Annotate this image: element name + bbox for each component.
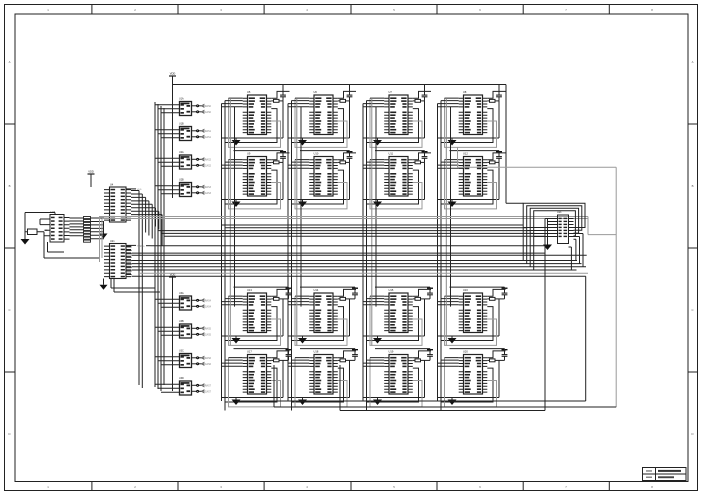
wire U23 nested loops	[523, 203, 585, 260]
svg-text:U9: U9	[247, 151, 251, 155]
svg-text:A: A	[9, 60, 11, 64]
wire RP to U4	[91, 218, 105, 239]
wire U22 left pins	[40, 219, 64, 252]
RAM U19	[363, 349, 433, 407]
wire small IC input taps	[155, 105, 173, 393]
svg-text:U13: U13	[247, 288, 252, 292]
RAM U18	[288, 349, 358, 407]
svg-text:U17: U17	[247, 349, 252, 353]
wire bottom long black 1	[237, 276, 586, 401]
svg-text:CAS4: CAS4	[205, 305, 212, 308]
decoder U22	[45, 211, 70, 242]
wire rail corner drop to loop	[506, 85, 523, 204]
RAM U12	[438, 151, 506, 209]
RAM U13	[222, 287, 292, 345]
svg-text:RAS3: RAS3	[205, 186, 212, 189]
RAM U6	[288, 85, 356, 148]
RAM U7	[363, 85, 431, 148]
svg-text:VDD: VDD	[140, 246, 145, 248]
wire left stub	[25, 213, 55, 240]
inverter U2A	[173, 151, 212, 169]
wire U23 bottom loops	[569, 234, 584, 271]
title block	[643, 468, 687, 481]
svg-text:U1B: U1B	[179, 122, 184, 125]
svg-text:U14: U14	[314, 288, 319, 292]
wire U4 outputs fan	[131, 191, 162, 389]
svg-text:D: D	[691, 432, 693, 436]
svg-text:CAS2: CAS2	[205, 164, 212, 167]
svg-text:U2A: U2A	[179, 151, 184, 154]
ground U4	[103, 222, 105, 234]
RAM U17	[222, 349, 292, 407]
svg-text:U7: U7	[389, 90, 393, 94]
power tag VDD U4	[126, 188, 136, 190]
inverter U2B	[173, 178, 212, 196]
ground U21	[103, 279, 105, 285]
wire bottom long black 3	[274, 365, 616, 407]
wire VDD stem small IC column top	[172, 85, 174, 199]
svg-text:U3C: U3C	[179, 349, 184, 352]
inverter U1A	[173, 97, 212, 115]
svg-text:U20: U20	[463, 349, 468, 353]
wire U21 output buses stubs	[126, 247, 132, 275]
ground R1	[21, 239, 30, 245]
svg-text:A: A	[692, 60, 694, 64]
wire below U21	[111, 279, 160, 293]
wire column verticals	[222, 101, 451, 411]
svg-text:C: C	[8, 308, 10, 312]
svg-text:U16: U16	[463, 288, 468, 292]
svg-text:U21: U21	[110, 240, 115, 243]
bus top band to right IC	[158, 225, 545, 236]
wire gray pair long	[100, 217, 589, 219]
wire long vertical x545	[544, 219, 546, 411]
buffer U4	[104, 183, 131, 222]
svg-text:RAS2: RAS2	[205, 158, 212, 161]
inverter U1B	[173, 122, 212, 140]
RAM U15	[363, 287, 433, 345]
svg-text:U15: U15	[389, 288, 394, 292]
svg-text:CAS1: CAS1	[205, 136, 212, 139]
svg-text:U23: U23	[557, 211, 562, 214]
svg-text:CAS5: CAS5	[205, 333, 212, 336]
svg-text:D: D	[8, 432, 10, 436]
svg-text:CAS6: CAS6	[205, 363, 212, 366]
svg-text:C: C	[691, 308, 693, 312]
ground U23	[543, 245, 552, 251]
RAM U11	[363, 151, 431, 209]
inverter U3D	[173, 377, 212, 395]
svg-text:RAS6: RAS6	[205, 357, 212, 360]
bus lines middle band	[132, 246, 587, 277]
svg-text:RAS7: RAS7	[205, 384, 212, 387]
svg-text:U3A: U3A	[179, 292, 184, 295]
inverter U3A	[173, 292, 212, 310]
svg-text:VDD: VDD	[170, 72, 176, 76]
svg-text:U1A: U1A	[179, 97, 184, 100]
power tag VDD U21	[126, 244, 136, 246]
svg-text:U12: U12	[463, 151, 468, 155]
svg-text:B: B	[692, 184, 694, 188]
svg-text:U5: U5	[247, 90, 251, 94]
svg-text:CAS3: CAS3	[205, 192, 212, 195]
RAM U9	[222, 151, 290, 209]
svg-text:U11: U11	[389, 151, 394, 155]
RAM U5	[222, 85, 290, 148]
resistor R1	[28, 229, 38, 235]
svg-text:U10: U10	[314, 151, 319, 155]
wire VDD rail horizontal	[173, 84, 507, 86]
wire U22 to RP	[70, 218, 84, 236]
svg-text:RAS5: RAS5	[205, 327, 212, 330]
bus gray line	[140, 272, 588, 274]
border zone ticks sides	[5, 124, 698, 372]
power tag bus VDD	[146, 245, 151, 247]
wire R1 leads	[25, 232, 100, 258]
svg-text:U6: U6	[314, 90, 318, 94]
wire bottom long black 2	[340, 365, 545, 411]
svg-text:U2B: U2B	[179, 178, 184, 181]
svg-text:CAS0: CAS0	[205, 111, 212, 114]
svg-text:U3D: U3D	[179, 377, 184, 380]
buffer U21	[104, 240, 131, 279]
wire gray right box	[458, 147, 617, 407]
RAM U16	[438, 287, 508, 345]
svg-text:RAS4: RAS4	[205, 299, 212, 302]
svg-text:B: B	[9, 184, 11, 188]
resistor pack RP1	[84, 217, 91, 243]
svg-text:RAS1: RAS1	[205, 130, 212, 133]
svg-text:U19: U19	[389, 349, 394, 353]
svg-text:RAS0: RAS0	[205, 105, 212, 108]
inverter U3C	[173, 349, 212, 367]
svg-text:U3B: U3B	[179, 320, 184, 323]
wire input bundle verticals	[155, 102, 164, 391]
RAM U8	[438, 85, 506, 148]
svg-text:VDD: VDD	[88, 170, 94, 174]
RAM U14	[288, 287, 358, 345]
border zone ticks bottom	[92, 482, 609, 491]
svg-text:CAS7: CAS7	[205, 390, 212, 393]
wire U23 left pin column	[545, 219, 553, 245]
wire gray vertical left	[100, 216, 103, 262]
RAM U10	[288, 151, 356, 209]
svg-text:U18: U18	[314, 349, 319, 353]
border zone ticks top	[92, 5, 609, 15]
multiplexer U23	[553, 211, 574, 243]
svg-text:U8: U8	[463, 90, 467, 94]
inverter U3B	[173, 320, 212, 338]
RAM U20	[438, 349, 508, 407]
